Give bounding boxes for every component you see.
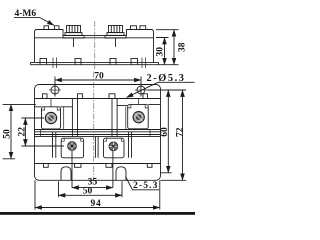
terminal stack 2 base bbox=[105, 35, 126, 38]
upper terminal well ledge left bbox=[35, 106, 73, 108]
terminal stack 1 base bbox=[63, 35, 84, 38]
bottom slot right bbox=[116, 167, 126, 181]
terminal stack 2 flange bbox=[107, 33, 124, 36]
terminal stack 2 nut bbox=[109, 26, 123, 33]
plan bottom tab 2 bbox=[75, 164, 82, 168]
plan view outline bbox=[35, 85, 161, 181]
side view rim bump 4 bbox=[140, 26, 146, 30]
terminal stack 1 flange bbox=[65, 33, 82, 36]
dim 70 bbox=[55, 79, 141, 81]
svg-text:70: 70 bbox=[94, 72, 104, 82]
dim 70 extension / hole centerlines bbox=[55, 77, 141, 97]
center line side view bbox=[94, 21, 96, 69]
plan bottom tab 4 bbox=[147, 164, 152, 168]
plan top tab 1 bbox=[43, 94, 48, 99]
bottom rule bbox=[0, 212, 195, 215]
channel wall lines upper bbox=[72, 99, 117, 137]
dim 60 bbox=[167, 90, 169, 173]
side view baseplate bbox=[31, 62, 159, 64]
dim 30 bbox=[164, 38, 166, 65]
terminal stack 1 screw shank bbox=[73, 38, 75, 47]
side view bottom bump 3 bbox=[110, 58, 116, 64]
dim 50 bottom extension lines bbox=[59, 181, 123, 197]
side view rim bump 2 bbox=[55, 26, 60, 30]
dim 50 bottom bbox=[59, 194, 123, 196]
terminal stack 1 nut bbox=[67, 26, 81, 33]
center line plan view bbox=[93, 72, 95, 181]
side view bottom bump 4 bbox=[131, 58, 138, 64]
svg-text:50: 50 bbox=[83, 187, 93, 197]
mounting hole top-left bbox=[49, 86, 61, 94]
upper terminal nut right bbox=[133, 112, 144, 123]
leader 2-O5.3 bbox=[127, 82, 159, 97]
dim 38 bbox=[173, 30, 175, 65]
plan inner bottom line bbox=[35, 163, 161, 165]
side view mounting hole section right bbox=[142, 58, 146, 69]
leader arrow for 4-M6 bbox=[14, 17, 40, 19]
svg-text:60: 60 bbox=[160, 127, 170, 137]
svg-text:38: 38 bbox=[178, 42, 188, 52]
plan inner top line bbox=[35, 98, 161, 100]
side view bottom bump 2 bbox=[75, 58, 81, 64]
plan bottom tab 1 bbox=[44, 164, 49, 168]
bottom slot left bbox=[61, 167, 71, 181]
dim 38 extension line bbox=[156, 29, 179, 31]
upper terminal well ledge right bbox=[117, 105, 160, 106]
dim 22 bbox=[24, 118, 26, 146]
lower terminal screw right bbox=[109, 142, 118, 151]
side view bottom bump 1 bbox=[40, 58, 47, 64]
upper terminal square right bbox=[128, 105, 149, 129]
svg-text:72: 72 bbox=[176, 127, 186, 137]
lower terminal screw left bbox=[68, 142, 77, 151]
dim 50 left extension lines bbox=[3, 104, 37, 158]
dim 94 extension lines bbox=[35, 180, 160, 209]
side view rim bump 3 bbox=[131, 26, 137, 30]
dim 35 bbox=[72, 187, 113, 189]
dim 72 bbox=[182, 90, 184, 180]
lower terminal square left bbox=[61, 138, 83, 158]
plan top tab 3 bbox=[109, 94, 115, 99]
dim 94 bbox=[35, 207, 160, 209]
side view rim bump 1 bbox=[44, 26, 49, 30]
svg-text:50: 50 bbox=[3, 129, 13, 139]
dim 50 left bbox=[10, 104, 12, 158]
lower row wall lines bbox=[53, 132, 132, 158]
upper terminal nut left bbox=[45, 112, 56, 123]
side view body outline bbox=[35, 30, 154, 63]
middle divider lines bbox=[35, 130, 161, 137]
leader lines lower terminals bbox=[72, 151, 113, 188]
upper terminal square left bbox=[42, 107, 61, 129]
mounting hole top-right bbox=[135, 86, 147, 94]
dim 60 extension lines bbox=[147, 90, 186, 173]
label 2-5.3 leader bbox=[126, 177, 160, 190]
plan bottom tab 3 bbox=[106, 164, 112, 168]
dim 30 extension lines bbox=[156, 38, 179, 65]
side view deck seam line bbox=[35, 37, 154, 39]
svg-text:2-Ø5.3: 2-Ø5.3 bbox=[147, 73, 186, 84]
svg-text:2-5.3: 2-5.3 bbox=[133, 180, 158, 191]
plan top tab 2 bbox=[78, 94, 83, 99]
svg-text:22: 22 bbox=[18, 127, 28, 137]
side view mounting hole section left bbox=[53, 58, 57, 69]
upper terminal centerlines bbox=[51, 99, 138, 108]
dim 72 extension line bbox=[161, 179, 187, 181]
plan top tab 4 bbox=[143, 94, 148, 99]
divider short verticals bbox=[41, 130, 151, 137]
terminal stack 2 screw shank bbox=[115, 38, 117, 47]
svg-text:30: 30 bbox=[156, 47, 166, 57]
upper well side walls bbox=[64, 107, 126, 129]
svg-text:94: 94 bbox=[90, 199, 101, 209]
lower terminal square right bbox=[104, 138, 125, 158]
dim 22 extension lines bbox=[22, 118, 65, 146]
